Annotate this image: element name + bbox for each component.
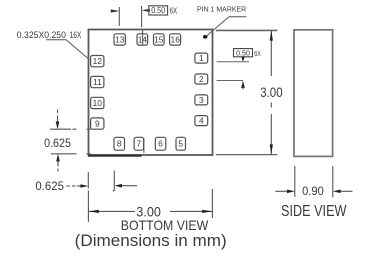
svg-text:3.00: 3.00 bbox=[260, 84, 283, 100]
svg-text:15: 15 bbox=[154, 34, 164, 44]
svg-text:6X: 6X bbox=[254, 49, 261, 58]
svg-text:SIDE VIEW: SIDE VIEW bbox=[281, 203, 347, 220]
svg-text:9: 9 bbox=[95, 119, 100, 129]
svg-text:13: 13 bbox=[115, 34, 125, 44]
svg-text:0.90: 0.90 bbox=[302, 186, 324, 198]
svg-text:16X: 16X bbox=[70, 30, 82, 40]
svg-text:6X: 6X bbox=[170, 7, 178, 16]
svg-text:10: 10 bbox=[93, 98, 103, 108]
svg-text:11: 11 bbox=[93, 77, 102, 87]
svg-text:4: 4 bbox=[199, 116, 204, 126]
svg-text:1: 1 bbox=[199, 53, 204, 63]
svg-text:(Dimensions in mm): (Dimensions in mm) bbox=[75, 231, 227, 250]
svg-text:2: 2 bbox=[199, 74, 204, 84]
svg-text:5: 5 bbox=[178, 139, 183, 149]
svg-text:0.625: 0.625 bbox=[44, 138, 71, 150]
svg-text:0.625: 0.625 bbox=[35, 181, 64, 193]
svg-text:0.50: 0.50 bbox=[236, 49, 250, 58]
svg-text:16: 16 bbox=[171, 34, 181, 44]
svg-text:6: 6 bbox=[158, 139, 163, 149]
svg-text:PIN 1 MARKER: PIN 1 MARKER bbox=[197, 4, 247, 13]
svg-text:0.50: 0.50 bbox=[151, 6, 165, 15]
svg-text:3: 3 bbox=[199, 95, 204, 105]
svg-text:12: 12 bbox=[93, 56, 103, 66]
svg-text:0.325X0.250: 0.325X0.250 bbox=[17, 30, 66, 40]
svg-text:8: 8 bbox=[117, 139, 122, 149]
svg-text:7: 7 bbox=[136, 139, 141, 149]
